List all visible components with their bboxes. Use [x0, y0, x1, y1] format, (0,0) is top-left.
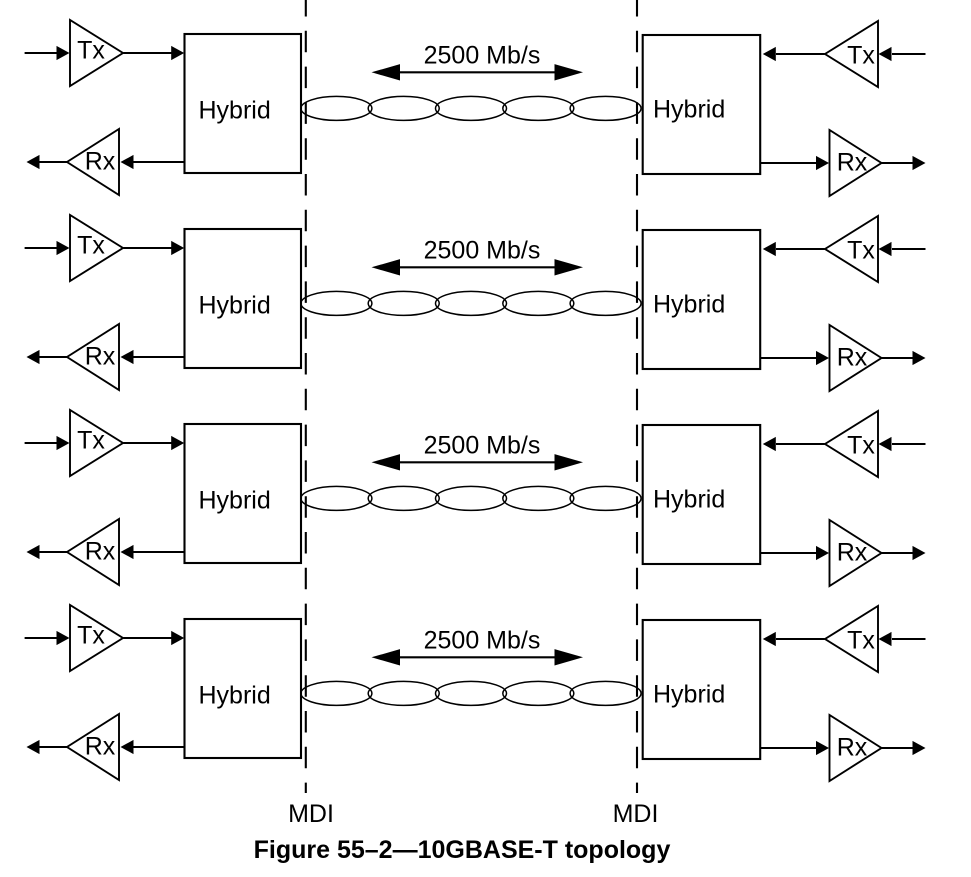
- arrowhead out left (row 3 left): [27, 545, 40, 559]
- amplifier Tx (row 2 right): [825, 216, 878, 282]
- svg-text:2500 Mb/s: 2500 Mb/s: [424, 627, 541, 655]
- twisted pair ellipse 5 (row 3): [570, 486, 641, 510]
- wire Hybrid to Rx (row 2 right): [760, 357, 816, 359]
- amplifier Tx (row 3 left): [70, 410, 123, 476]
- hybrid box (row 4 left): [185, 619, 302, 758]
- hybrid box (row 2 right): [643, 230, 761, 369]
- wire Tx to Hybrid (row 3 right): [776, 443, 825, 445]
- wire into Tx (row 4 right): [892, 638, 926, 640]
- twisted pair ellipse 4 (row 4): [503, 681, 574, 705]
- wire out of Rx (row 3 left): [40, 551, 68, 553]
- hybrid box (row 3 right): [643, 425, 761, 564]
- svg-text:2500 Mb/s: 2500 Mb/s: [424, 237, 541, 265]
- amplifier Tx (row 2 left): [70, 215, 123, 281]
- wire into Tx (row 4 left): [25, 637, 58, 639]
- twisted pair ellipse 2 (row 3): [368, 486, 439, 510]
- arrowhead into Rx (row 1 left): [121, 155, 134, 169]
- svg-text:Hybrid: Hybrid: [199, 682, 271, 710]
- arrowhead into Hybrid (row 4 right): [763, 632, 776, 646]
- arrowhead into Hybrid (row 1 right): [763, 47, 776, 61]
- double-headed rate arrow (row 2): [398, 266, 555, 268]
- amplifier Rx (row 3 left): [67, 519, 119, 585]
- wire into Tx (row 3 right): [892, 443, 926, 445]
- svg-text:Rx: Rx: [85, 733, 116, 761]
- wire into Tx (row 1 right): [892, 53, 926, 55]
- arrowhead into Rx (row 2 left): [121, 350, 134, 364]
- twisted pair ellipse 1 (row 1): [301, 96, 372, 120]
- svg-text:Rx: Rx: [85, 343, 116, 371]
- arrowhead into Rx (row 4 right): [816, 741, 829, 755]
- hybrid box (row 1 left): [185, 34, 302, 173]
- wire Tx to Hybrid (row 4 right): [776, 638, 825, 640]
- svg-text:Rx: Rx: [85, 148, 116, 176]
- svg-text:MDI: MDI: [613, 800, 659, 828]
- arrowhead into Rx (row 3 left): [121, 545, 134, 559]
- wire Hybrid to Rx (row 3 left): [133, 551, 185, 553]
- svg-text:2500 Mb/s: 2500 Mb/s: [424, 432, 541, 460]
- wire into Tx (row 2 left): [25, 247, 58, 249]
- svg-text:Tx: Tx: [847, 627, 875, 655]
- arrowhead into Rx (row 1 right): [816, 156, 829, 170]
- twisted pair ellipse 1 (row 2): [301, 291, 372, 315]
- arrowhead out right (row 3 right): [913, 546, 926, 560]
- wire Hybrid to Rx (row 4 left): [133, 746, 185, 748]
- svg-text:Tx: Tx: [847, 432, 875, 460]
- twisted pair ellipse 1 (row 3): [301, 486, 372, 510]
- svg-text:Tx: Tx: [847, 42, 875, 70]
- twisted pair ellipse 2 (row 2): [368, 291, 439, 315]
- arrowhead into Tx (row 2 left): [57, 241, 70, 255]
- hybrid box (row 2 left): [185, 229, 302, 368]
- twisted pair ellipse 4 (row 3): [503, 486, 574, 510]
- wire out of Rx (row 4 right): [882, 747, 913, 749]
- twisted pair ellipse 5 (row 4): [570, 681, 641, 705]
- wire out of Rx (row 1 left): [40, 161, 68, 163]
- svg-text:Rx: Rx: [85, 538, 116, 566]
- wire Hybrid to Rx (row 4 right): [760, 747, 816, 749]
- hybrid box (row 3 left): [185, 424, 302, 563]
- left MDI dashed line: [305, 0, 307, 793]
- arrowhead into Rx (row 4 left): [121, 740, 134, 754]
- svg-text:Figure 55–2—10GBASE-T topology: Figure 55–2—10GBASE-T topology: [254, 836, 671, 864]
- twisted pair ellipse 4 (row 1): [503, 96, 574, 120]
- arrowhead into Tx (row 4 right): [879, 632, 892, 646]
- right MDI dashed line: [636, 0, 638, 793]
- arrowhead into Hybrid (row 3 right): [763, 437, 776, 451]
- wire Tx to Hybrid (row 4 left): [124, 637, 173, 639]
- double-headed rate arrow (row 4): [398, 656, 555, 658]
- amplifier Rx (row 2 left): [67, 324, 119, 390]
- twisted pair ellipse 3 (row 4): [436, 681, 507, 705]
- wire into Tx (row 1 left): [25, 52, 58, 54]
- svg-text:MDI: MDI: [288, 800, 334, 828]
- arrowhead out left (row 1 left): [27, 155, 40, 169]
- hybrid box (row 1 right): [643, 35, 761, 174]
- amplifier Rx (row 1 right): [830, 130, 882, 196]
- svg-text:Tx: Tx: [77, 232, 105, 260]
- double-headed rate arrow (row 3): [398, 461, 555, 463]
- twisted pair ellipse 5 (row 2): [570, 291, 641, 315]
- arrowhead into Tx (row 2 right): [879, 242, 892, 256]
- twisted pair ellipse 1 (row 4): [301, 681, 372, 705]
- wire out of Rx (row 4 left): [40, 746, 68, 748]
- wire Tx to Hybrid (row 1 left): [124, 52, 173, 54]
- arrowhead out right (row 2 right): [913, 351, 926, 365]
- amplifier Rx (row 4 right): [830, 715, 882, 781]
- arrowhead out right (row 4 right): [913, 741, 926, 755]
- wire into Tx (row 2 right): [892, 248, 926, 250]
- svg-text:Rx: Rx: [837, 539, 868, 567]
- svg-text:Hybrid: Hybrid: [653, 486, 725, 514]
- twisted pair ellipse 5 (row 1): [570, 96, 641, 120]
- svg-text:Rx: Rx: [837, 149, 868, 177]
- amplifier Tx (row 1 right): [825, 21, 878, 87]
- svg-text:2500 Mb/s: 2500 Mb/s: [424, 42, 541, 70]
- arrowhead out left (row 2 left): [27, 350, 40, 364]
- arrowhead into Tx (row 3 right): [879, 437, 892, 451]
- arrowhead into Hybrid (row 2 right): [763, 242, 776, 256]
- amplifier Tx (row 1 left): [70, 20, 123, 86]
- twisted pair ellipse 3 (row 3): [436, 486, 507, 510]
- wire Hybrid to Rx (row 1 left): [133, 161, 185, 163]
- wire Tx to Hybrid (row 2 left): [124, 247, 173, 249]
- wire out of Rx (row 3 right): [882, 552, 913, 554]
- double-headed rate arrow (row 1): [398, 71, 555, 73]
- twisted pair ellipse 3 (row 1): [436, 96, 507, 120]
- amplifier Tx (row 3 right): [825, 411, 878, 477]
- amplifier Rx (row 2 right): [830, 325, 882, 391]
- svg-text:Rx: Rx: [837, 344, 868, 372]
- svg-text:Hybrid: Hybrid: [653, 291, 725, 319]
- wire Hybrid to Rx (row 2 left): [133, 356, 185, 358]
- arrowhead into Tx (row 1 left): [57, 46, 70, 60]
- twisted pair ellipse 3 (row 2): [436, 291, 507, 315]
- wire Hybrid to Rx (row 3 right): [760, 552, 816, 554]
- twisted pair ellipse 2 (row 4): [368, 681, 439, 705]
- amplifier Rx (row 4 left): [67, 714, 119, 780]
- arrowhead into Hybrid (row 4 left): [171, 631, 184, 645]
- arrowhead out right (row 1 right): [913, 156, 926, 170]
- svg-text:Rx: Rx: [837, 734, 868, 762]
- wire Hybrid to Rx (row 1 right): [760, 162, 816, 164]
- svg-text:Tx: Tx: [77, 622, 105, 650]
- svg-text:Tx: Tx: [77, 427, 105, 455]
- hybrid box (row 4 right): [643, 620, 761, 759]
- arrowhead into Hybrid (row 2 left): [171, 241, 184, 255]
- twisted pair ellipse 4 (row 2): [503, 291, 574, 315]
- svg-text:Tx: Tx: [77, 37, 105, 65]
- svg-text:Hybrid: Hybrid: [199, 292, 271, 320]
- arrowhead out left (row 4 left): [27, 740, 40, 754]
- svg-text:Tx: Tx: [847, 237, 875, 265]
- svg-text:Hybrid: Hybrid: [199, 487, 271, 515]
- arrowhead into Hybrid (row 3 left): [171, 436, 184, 450]
- amplifier Rx (row 1 left): [67, 129, 119, 195]
- arrowhead into Rx (row 2 right): [816, 351, 829, 365]
- wire Tx to Hybrid (row 2 right): [776, 248, 825, 250]
- arrowhead into Hybrid (row 1 left): [171, 46, 184, 60]
- arrowhead into Rx (row 3 right): [816, 546, 829, 560]
- wire into Tx (row 3 left): [25, 442, 58, 444]
- wire Tx to Hybrid (row 3 left): [124, 442, 173, 444]
- arrowhead into Tx (row 3 left): [57, 436, 70, 450]
- arrowhead into Tx (row 4 left): [57, 631, 70, 645]
- svg-text:Hybrid: Hybrid: [653, 96, 725, 124]
- svg-text:Hybrid: Hybrid: [653, 681, 725, 709]
- wire Tx to Hybrid (row 1 right): [776, 53, 825, 55]
- wire out of Rx (row 1 right): [882, 162, 913, 164]
- svg-text:Hybrid: Hybrid: [199, 97, 271, 125]
- twisted pair ellipse 2 (row 1): [368, 96, 439, 120]
- amplifier Tx (row 4 right): [825, 606, 878, 672]
- amplifier Rx (row 3 right): [830, 520, 882, 586]
- wire out of Rx (row 2 left): [40, 356, 68, 358]
- amplifier Tx (row 4 left): [70, 605, 123, 671]
- wire out of Rx (row 2 right): [882, 357, 913, 359]
- arrowhead into Tx (row 1 right): [879, 47, 892, 61]
